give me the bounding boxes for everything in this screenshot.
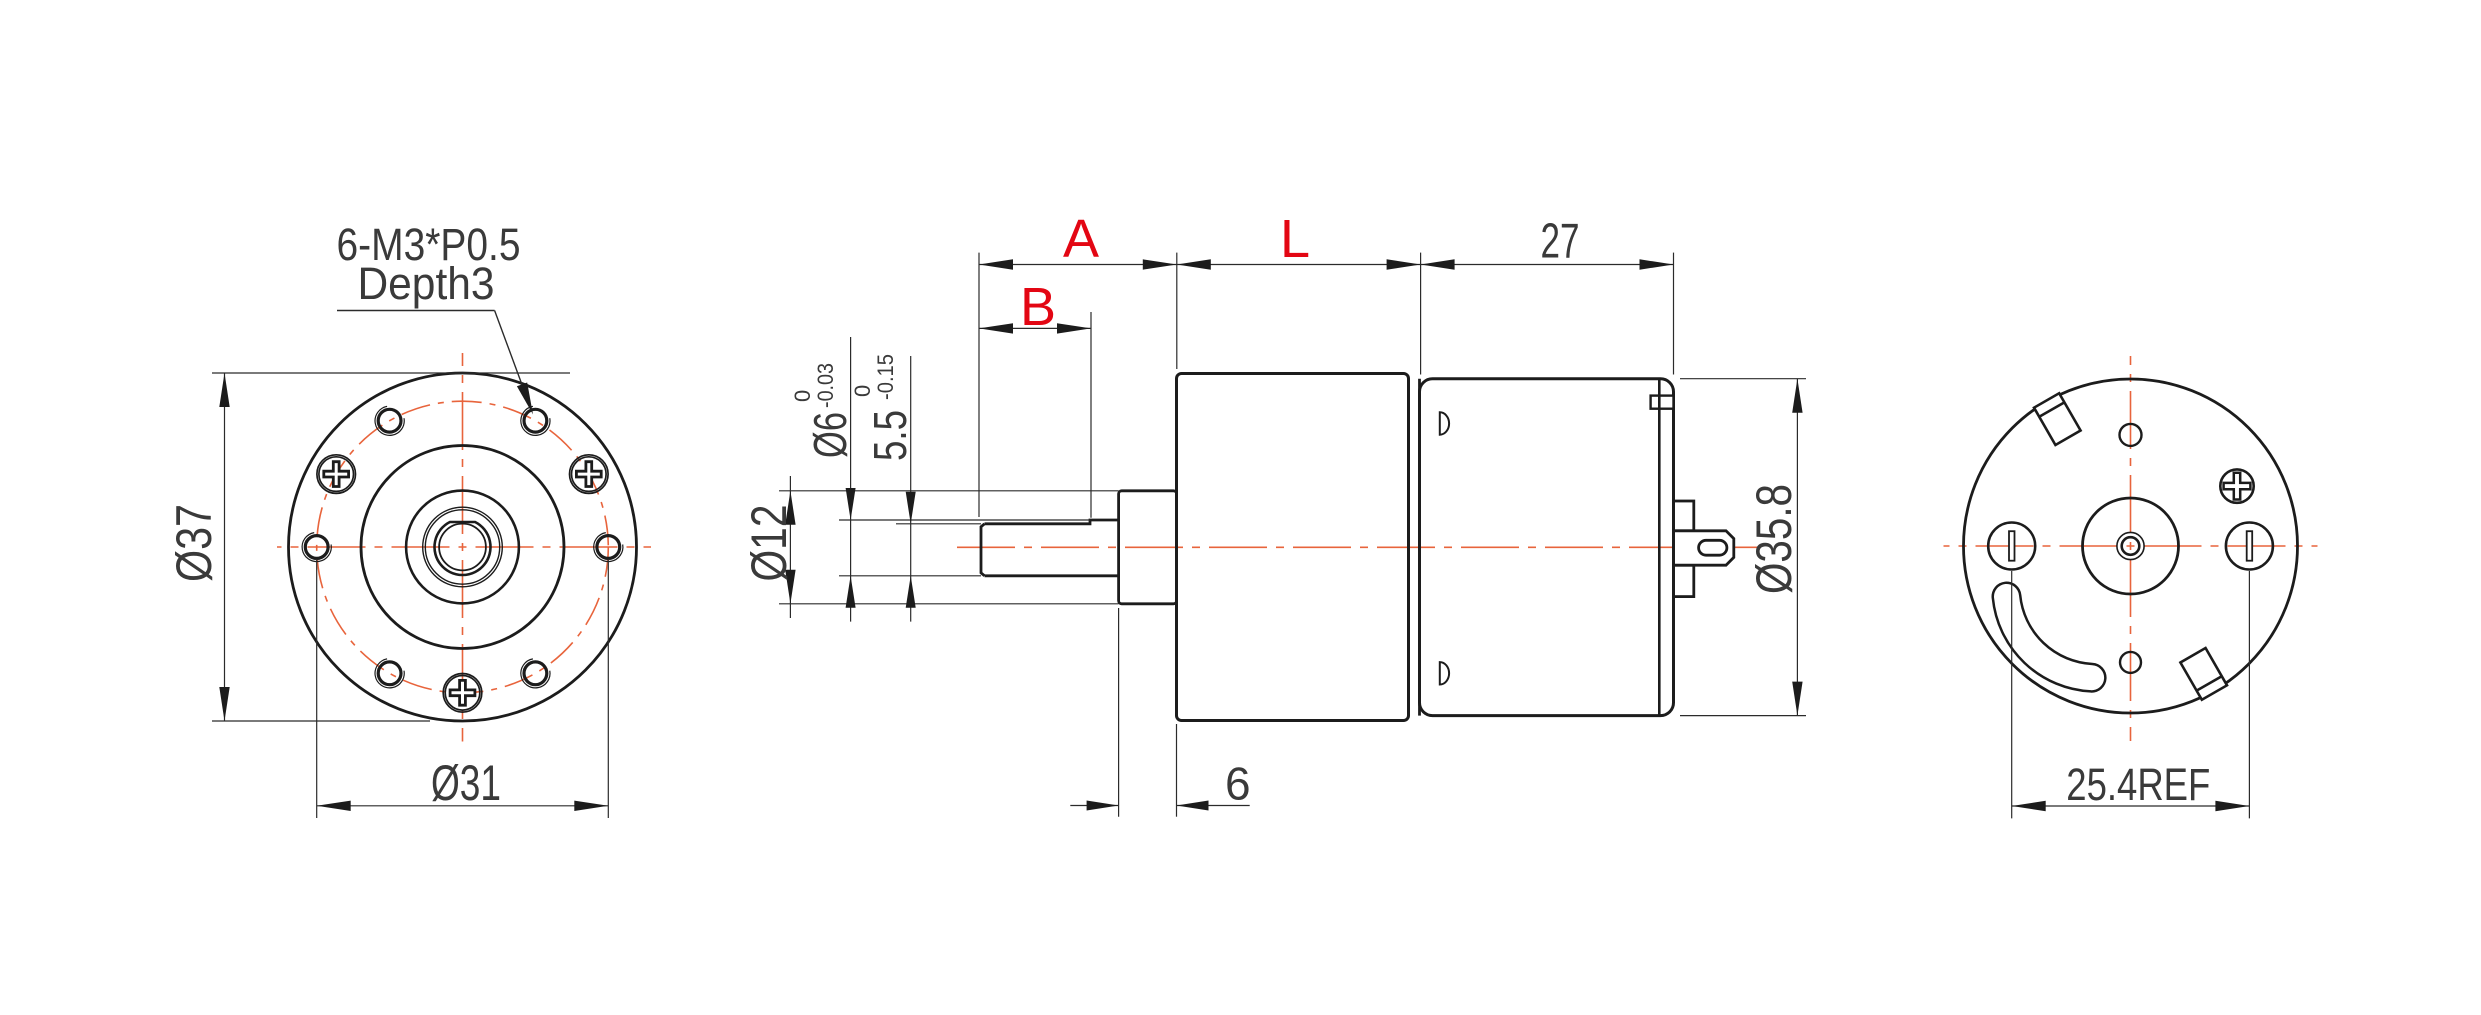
svg-text:Ø37: Ø37 <box>166 504 222 582</box>
middle view: motor can crimp notch upper <box>1440 412 1449 434</box>
middle view: motor body rounded rectangle <box>1420 379 1674 716</box>
svg-text:6: 6 <box>1225 758 1251 810</box>
middle view: B dimension extension line <box>1090 312 1092 518</box>
middle view: motor can crimp notch lower <box>1440 662 1449 684</box>
middle view: Ø35.8 extension lines <box>1680 378 1806 380</box>
right view: center boss circle <box>2083 498 2179 594</box>
svg-text:5.5: 5.5 <box>864 410 916 461</box>
middle view: dimension chain extension lines <box>978 253 980 517</box>
right view: 25.4REF dimension line with arrows <box>2012 805 2250 807</box>
middle view: 5.5 tolerance text <box>850 354 916 461</box>
left view: vertical centerline <box>462 353 464 742</box>
svg-text:A: A <box>1063 209 1099 269</box>
svg-text:B: B <box>1020 277 1056 337</box>
left view: gearbox step circle <box>361 446 564 649</box>
middle view: horizontal centerline <box>957 546 1757 548</box>
middle view: B dimension line with arrows <box>979 327 1091 329</box>
left view: gearbox front face outer circle Ø37 <box>289 373 637 721</box>
left view: leader arrowhead <box>517 383 533 415</box>
left view: phillips assembly screw at -150 deg <box>317 455 356 494</box>
left view: Ø37 dimension extension lines <box>212 372 570 374</box>
middle view: gearbox body rectangle <box>1177 374 1409 721</box>
left view: bearing bore double circle <box>423 507 503 587</box>
left view: M3 tapped hole at 0 deg <box>597 536 620 559</box>
left view: M3 tapped hole at 180 deg <box>305 536 328 559</box>
svg-text:-0.15: -0.15 <box>873 354 898 400</box>
left view: shaft boss circle Ø12 <box>406 491 519 604</box>
middle view: terminal slot <box>1699 540 1727 555</box>
left view: Ø31 dimension line with arrows <box>317 805 609 807</box>
right view: kidney vent slot <box>2007 597 2092 678</box>
middle view: 5.5 dimension line <box>910 356 912 622</box>
svg-text:25.4REF: 25.4REF <box>2066 759 2210 810</box>
left view: phillips assembly screw at 90 deg <box>443 674 482 713</box>
middle view: Ø6 tolerance text <box>790 363 856 458</box>
middle view: Ø12 dimension line with arrows <box>789 476 791 618</box>
left view: phillips assembly screw at -30 deg <box>570 455 609 494</box>
svg-text:Ø6: Ø6 <box>804 412 856 458</box>
middle view: dimension chain arrows <box>979 259 1013 269</box>
right view: terminal tab upper-left <box>2034 393 2081 445</box>
middle view: boss Ø12 extension lines <box>779 490 1119 492</box>
right view: horizontal centerline <box>1944 545 2318 547</box>
right view: vertical centerline <box>2130 356 2132 741</box>
middle view: 6 dimension extension lines <box>1118 608 1120 817</box>
left view: bolt circle Ø31 centerline (orange dashed) <box>317 401 609 693</box>
middle view: shaft flat extension line <box>896 523 981 525</box>
middle view: terminal upper boss <box>1674 501 1694 531</box>
svg-text:27: 27 <box>1541 214 1580 268</box>
right view: left bushing circle with slot <box>1988 523 2035 570</box>
left view: M3 tapped hole at 300 deg <box>524 409 547 432</box>
middle view: terminal lug plate <box>1675 531 1734 565</box>
left view: Ø37 dimension line with arrows <box>224 373 226 721</box>
svg-text:-0.03: -0.03 <box>813 363 838 408</box>
svg-text:L: L <box>1280 209 1310 269</box>
right view: phillips screw <box>2220 469 2253 502</box>
middle view: 6 dimension line and outside arrows <box>1070 805 1118 807</box>
middle view: Ø6 dimension line <box>850 337 852 622</box>
right view: lower vent hole <box>2120 652 2141 673</box>
svg-text:Depth3: Depth3 <box>358 258 495 309</box>
middle view: terminal lower boss <box>1674 565 1694 596</box>
middle view: Ø6 dimension arrows <box>846 488 856 520</box>
left view: M3 tapped hole at 240 deg <box>378 409 401 432</box>
left view: shaft D-profile circle with flat <box>435 522 491 575</box>
middle view: endcap vent tab rectangle <box>1651 396 1674 409</box>
left view: Ø31 dimension extension lines <box>316 559 318 818</box>
middle view: output shaft outline with flat <box>985 520 1119 524</box>
middle view: shaft bottom extension line <box>839 575 981 577</box>
svg-text:0: 0 <box>850 385 875 397</box>
right view: right bushing circle with slot <box>2226 523 2273 570</box>
right view: terminal tab lower-right <box>2180 648 2227 700</box>
svg-text:Ø12: Ø12 <box>741 505 797 582</box>
right view: motor rear outer circle <box>1964 379 2298 713</box>
left view: shaft inner circle Ø6 bore <box>439 524 486 571</box>
svg-text:Ø31: Ø31 <box>431 755 501 811</box>
left view: horizontal centerline <box>277 546 651 548</box>
middle view: 5.5 dimension arrows <box>906 492 916 524</box>
svg-text:Ø35.8: Ø35.8 <box>1746 484 1802 594</box>
middle view: motor front face line <box>1418 379 1421 716</box>
left view: M3 tapped hole at 60 deg <box>524 662 547 685</box>
right view: upper vent hole <box>2120 424 2142 446</box>
right view: 25.4REF extension lines <box>2011 571 2013 818</box>
middle view: dimension chain line <box>979 264 1674 266</box>
svg-text:0: 0 <box>790 390 815 402</box>
left view: M3 tapped hole at 120 deg <box>378 662 401 685</box>
right view: shaft end circles <box>2117 532 2144 559</box>
middle view: shaft Ø6 top extension line <box>839 519 1090 521</box>
left view: label underline and leader line <box>337 310 495 312</box>
middle view: bearing boss rectangle Ø12 <box>1119 491 1177 604</box>
middle view: motor can / endcap boundary line <box>1658 379 1661 716</box>
middle view: Ø35.8 dimension line with arrows <box>1796 379 1798 716</box>
